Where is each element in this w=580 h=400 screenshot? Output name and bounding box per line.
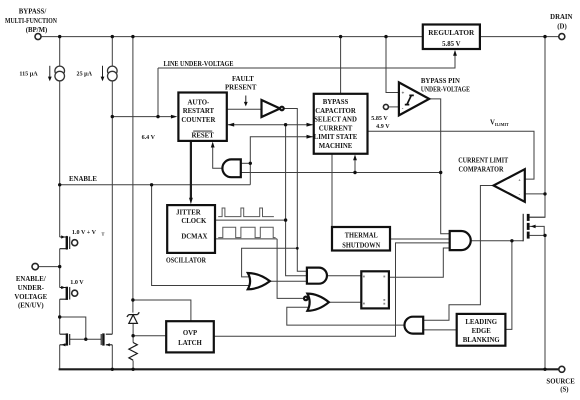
- arrow into regulator bottom: [453, 50, 457, 56]
- node dot fault branch: [296, 247, 299, 250]
- AND gate A (reset, faces left): [222, 159, 240, 177]
- svg-text:25 µA: 25 µA: [77, 72, 93, 78]
- svg-text:+: +: [518, 178, 521, 183]
- wire DCMAX to OR2 bubble input: [277, 239, 305, 299]
- wire bypass comparator reference input: [389, 106, 399, 108]
- arrow into oscillator top: [189, 198, 193, 205]
- node dot rail-25uA: [111, 35, 114, 38]
- svg-text:BLANKING: BLANKING: [463, 337, 501, 344]
- wire mirror gate link: [70, 338, 102, 340]
- wire mirror diode tie: [60, 317, 86, 339]
- wire bypass comparator plus input feed: [386, 37, 399, 93]
- current source I1 arrow: [49, 66, 51, 78]
- arrow into state machine input2: [307, 135, 314, 139]
- transistor Q2 arrow: [61, 286, 65, 289]
- wire AND4 output to MOSFET gate: [471, 240, 524, 242]
- wire ENABLE horizontal: [60, 184, 251, 186]
- zener diode VR1 cathode bar: [127, 312, 139, 317]
- wire inverter output down: [284, 109, 307, 272]
- node dot rail-115uA: [58, 35, 61, 38]
- wire ENABLE branch to OR1: [152, 185, 250, 286]
- arrow reset into AR counter bottom: [211, 142, 215, 148]
- transistor Q2 gate circle: [72, 290, 78, 296]
- svg-text:FAULT: FAULT: [232, 76, 254, 83]
- wire flip-flop Q to AND4: [389, 248, 450, 277]
- inverter U3: [262, 100, 281, 117]
- wire 115uA branch vertical (BP/M to EN/UV chain): [59, 37, 61, 237]
- node dot UV sense tap: [111, 115, 114, 118]
- svg-text:JITTER: JITTER: [176, 209, 201, 216]
- flip-flop pin label S: [363, 276, 365, 278]
- svg-text:SELECT AND: SELECT AND: [314, 117, 357, 124]
- svg-text:UNDER-: UNDER-: [18, 285, 45, 292]
- wire regulator output to drain pin: [480, 36, 559, 38]
- wire zener tap to OVP latch input: [133, 335, 166, 337]
- svg-text:REGULATOR: REGULATOR: [428, 30, 474, 37]
- bypass capacitor select state machine box: [314, 94, 368, 154]
- wire gate node to leading edge blanking: [505, 241, 512, 330]
- wire zener node to OVP latch top: [133, 300, 191, 321]
- leading edge blanking box: [457, 314, 506, 346]
- svg-text:DCMAX: DCMAX: [181, 233, 207, 240]
- current source I2 arrow: [102, 66, 104, 78]
- OR gate 2 input bubble: [304, 297, 308, 301]
- svg-text:1.0 V + V: 1.0 V + V: [72, 230, 97, 236]
- current source I2 25uA (two circles): [108, 66, 118, 76]
- jitter waveform: [218, 208, 274, 217]
- node dot bypass line SM branch: [353, 171, 356, 174]
- OVP latch box: [166, 321, 214, 352]
- oscillator box: [167, 205, 215, 253]
- node dot rail resistor: [131, 368, 134, 371]
- transistor Q1 arrow: [61, 235, 65, 238]
- svg-text:VILIMIT: VILIMIT: [490, 120, 509, 128]
- wire state machine bottom feed riser: [354, 156, 356, 173]
- wire OVP output to AND4: [214, 243, 450, 336]
- transistor Q1 gate circle: [72, 240, 78, 246]
- wire line under-voltage to regulator: [158, 53, 455, 69]
- wire BP/M top rail left segment: [41, 36, 423, 38]
- wire fault branch to OR1 top input: [242, 248, 298, 277]
- node dot rail MOSFET source: [543, 368, 546, 371]
- wire line under-voltage riser: [157, 68, 159, 117]
- node dot clock wire end: [284, 218, 287, 221]
- svg-text:4.9 V: 4.9 V: [376, 124, 390, 130]
- transistor Q1 gate bar: [69, 237, 71, 249]
- wire clock vertical: [286, 125, 307, 276]
- wire EN/UV chain mid segment: [59, 249, 61, 288]
- pin SOURCE circle: [559, 366, 565, 372]
- transistor Q1 channel bar thick: [66, 236, 68, 249]
- node dot UV riser: [156, 115, 159, 118]
- AND gate 5 (current limit, faces left): [404, 317, 423, 334]
- wire zener to resistor node: [132, 324, 134, 343]
- wire clock output from oscillator: [215, 219, 286, 221]
- current source I1 115uA (two circles): [55, 66, 65, 76]
- svg-text:LEADING: LEADING: [465, 319, 497, 326]
- node dot rail-SM feed: [339, 35, 342, 38]
- wire comparator output to AND5: [423, 186, 493, 321]
- wire bypass UV line to AND-A: [241, 172, 441, 174]
- resistor R1 zigzag: [129, 343, 137, 361]
- svg-text:MACHINE: MACHINE: [319, 143, 353, 150]
- wire OR2 output to flip-flop R: [329, 301, 362, 303]
- pin EN/UV circle: [32, 263, 38, 269]
- OR gate 2 (with bubble): [307, 294, 329, 311]
- wire line under-voltage sense horizontal: [112, 116, 174, 118]
- transistor Q3 gate bar: [69, 334, 71, 345]
- svg-text:BYPASS: BYPASS: [323, 99, 349, 106]
- svg-text:CAPACITOR: CAPACITOR: [315, 108, 356, 115]
- wire state machine bottom to thermal shutdown: [331, 154, 333, 227]
- OR gate 1: [248, 273, 270, 289]
- svg-text:SOURCE: SOURCE: [546, 378, 575, 385]
- svg-text:EDGE: EDGE: [472, 328, 492, 335]
- svg-text:UNDER-VOLTAGE: UNDER-VOLTAGE: [421, 87, 470, 94]
- svg-text:(S): (S): [560, 386, 568, 393]
- svg-text:1.0 V: 1.0 V: [70, 280, 84, 286]
- node dot rail-drain line: [543, 35, 546, 38]
- node dot EN/UV pin junction: [58, 265, 61, 268]
- svg-text:AUTO-: AUTO-: [188, 99, 211, 106]
- flip-flop pin label Qbar: [383, 299, 385, 301]
- flip-flop pin label Q: [383, 276, 385, 278]
- wire BP/M third branch to zener: [132, 37, 134, 313]
- node dot clock-AR junction: [284, 123, 287, 126]
- AND gate 4 (output driver): [450, 231, 471, 250]
- node dot zener top: [131, 298, 134, 301]
- svg-text:CLOCK: CLOCK: [181, 218, 207, 225]
- bypass comparator hysteresis symbol: [405, 95, 414, 104]
- svg-text:(BP/M): (BP/M): [26, 27, 48, 34]
- power MOSFET Q5 body arrow: [531, 225, 536, 229]
- power MOSFET Q5 gate bar: [522, 214, 524, 242]
- node dot gate node: [510, 239, 513, 242]
- bypass pin under-voltage comparator: [399, 82, 429, 115]
- transistor Q2 gate bar: [69, 287, 71, 299]
- wire V-ILIMIT (state machine to comparator): [368, 131, 535, 179]
- wire OR1 output to AND2: [270, 280, 307, 282]
- power MOSFET Q5 body segment: [527, 223, 530, 230]
- auto-restart counter box: [178, 93, 226, 141]
- transistor Q3 channel bar: [66, 333, 68, 345]
- node dot enable chain tap: [58, 183, 61, 186]
- wire OR2 feedback from AND5: [287, 307, 405, 325]
- wire clock to AR counter and state machine: [228, 124, 313, 126]
- svg-text:T: T: [102, 232, 105, 237]
- svg-text:OVP: OVP: [183, 330, 197, 337]
- svg-text:+: +: [402, 92, 405, 97]
- wire fault present (AR counter to inverter): [227, 108, 262, 110]
- wire 25uA branch vertical (BP/M to current mirror): [111, 37, 113, 335]
- svg-text:OSCILLATOR: OSCILLATOR: [166, 258, 206, 265]
- svg-text:RESET: RESET: [191, 133, 214, 140]
- node dot mirror gate: [84, 338, 87, 341]
- wire state machine top feed: [340, 37, 342, 94]
- wire AND-A output to reset: [213, 146, 223, 168]
- svg-text:LATCH: LATCH: [178, 340, 202, 347]
- transistor Q4 channel bar: [102, 333, 104, 345]
- power MOSFET Q5 drain segment: [527, 214, 530, 221]
- svg-text:CURRENT LIMIT: CURRENT LIMIT: [458, 157, 508, 164]
- wire bypass comparator output: [429, 99, 450, 234]
- transistor Q3 (mirror left NFET) leads: [60, 334, 67, 345]
- node dot rail-comparator feed: [384, 35, 387, 38]
- wire EN/UV chain lower segment: [59, 299, 61, 334]
- svg-text:DRAIN: DRAIN: [550, 14, 572, 21]
- svg-text:BYPASS PIN: BYPASS PIN: [421, 78, 460, 85]
- AND gate 2 (clock/fault/or1): [307, 268, 327, 284]
- inverter output bubble: [280, 107, 284, 111]
- svg-text:LINE UNDER-VOLTAGE: LINE UNDER-VOLTAGE: [164, 61, 234, 68]
- transistor Q2 channel bar thick: [66, 287, 68, 300]
- wire AND2 output to flip-flop S: [327, 275, 361, 277]
- wire DCMAX output from oscillator: [215, 238, 277, 240]
- svg-text:5.85 V: 5.85 V: [371, 116, 388, 122]
- wire mirror right source to rail: [111, 345, 113, 370]
- node dot rail mirror: [111, 368, 114, 371]
- wire drain sense vertical: [530, 37, 545, 218]
- wire LEB output to AND5: [423, 329, 457, 331]
- svg-text:VOLTAGE: VOLTAGE: [14, 294, 47, 301]
- wire thermal shutdown to AND4: [390, 238, 450, 240]
- DCMAX waveform: [218, 227, 275, 237]
- svg-text:RESTART: RESTART: [183, 108, 215, 115]
- transistor Q4 (mirror right NFET) leads: [106, 334, 113, 345]
- current limit comparator: [494, 169, 525, 202]
- svg-text:COMPARATOR: COMPARATOR: [459, 166, 504, 173]
- wire MOSFET drain lead: [530, 216, 545, 218]
- svg-text:6.4 V: 6.4 V: [142, 135, 156, 141]
- svg-text:5.85 V: 5.85 V: [442, 41, 460, 48]
- node dot zener-resistor tap: [131, 334, 134, 337]
- power MOSFET Q5 source segment: [527, 232, 530, 239]
- svg-text:THERMAL: THERMAL: [345, 232, 378, 239]
- node dot comparator drain input: [543, 192, 546, 195]
- arrow into state machine input1: [307, 123, 314, 127]
- wire MOSFET source to rail: [544, 235, 546, 369]
- wire source bottom rail: [59, 368, 559, 370]
- thermal shutdown box: [332, 227, 390, 251]
- svg-text:ENABLE/: ENABLE/: [16, 276, 46, 283]
- svg-text:LIMIT STATE: LIMIT STATE: [314, 134, 358, 141]
- svg-text:(EN/UV): (EN/UV): [18, 303, 44, 310]
- flip-flop latch box: [361, 271, 389, 308]
- arrow into state machine bottom: [353, 155, 357, 161]
- svg-text:BYPASS/: BYPASS/: [19, 9, 47, 16]
- svg-text:CURRENT: CURRENT: [319, 125, 353, 132]
- pin DRAIN circle: [559, 34, 565, 40]
- node dot MOSFET source: [543, 234, 546, 237]
- transistor Q2 (EN/UV lower PFET) channel: [60, 288, 67, 300]
- bypass comparator reference circle: [383, 104, 388, 109]
- flip-flop pin label R: [363, 303, 365, 305]
- svg-text:ENABLE: ENABLE: [69, 176, 97, 183]
- wire AR counter to oscillator (thick): [190, 141, 192, 198]
- svg-text:MULTI-FUNCTION: MULTI-FUNCTION: [5, 18, 57, 25]
- wire MOSFET body tie: [530, 226, 545, 235]
- svg-text:COUNTER: COUNTER: [181, 117, 215, 124]
- arrow into AR counter left: [171, 115, 178, 119]
- wire comparator drain sense input: [525, 193, 545, 195]
- regulator U2 box: [423, 25, 480, 50]
- node dot bypass line AND4 branch: [439, 171, 442, 174]
- wire MOSFET source lead: [530, 234, 545, 236]
- transistor Q4 source arrow: [106, 343, 110, 346]
- pin BP/M circle: [35, 34, 41, 40]
- wire enable to AND-A input: [241, 162, 251, 164]
- zener diode VR1 triangle: [129, 315, 138, 324]
- wire resistor to source rail: [132, 361, 134, 370]
- wire mirror left source to rail: [59, 345, 61, 370]
- wire EN/UV pin to chain: [39, 266, 60, 268]
- arrow fault present label: [245, 96, 247, 103]
- node dot rail-zener branch: [131, 35, 134, 38]
- svg-text:115 µA: 115 µA: [19, 72, 38, 78]
- node dot enable-ANDA junction: [249, 162, 252, 165]
- svg-text:SHUTDOWN: SHUTDOWN: [342, 242, 380, 249]
- svg-text:PRESENT: PRESENT: [225, 84, 257, 91]
- node dot mirror diode tie: [58, 315, 61, 318]
- transistor Q3 source arrow: [61, 343, 65, 346]
- reset overline: [193, 130, 212, 132]
- node dot enable OR1 branch: [150, 183, 153, 186]
- wire enable to state machine input: [250, 137, 312, 185]
- arrow into AR counter right (clock): [228, 123, 235, 127]
- svg-text:(D): (D): [557, 24, 566, 31]
- transistor Q4 gate bar: [100, 334, 102, 345]
- transistor Q1 (EN/UV upper PFET) channel: [60, 236, 67, 250]
